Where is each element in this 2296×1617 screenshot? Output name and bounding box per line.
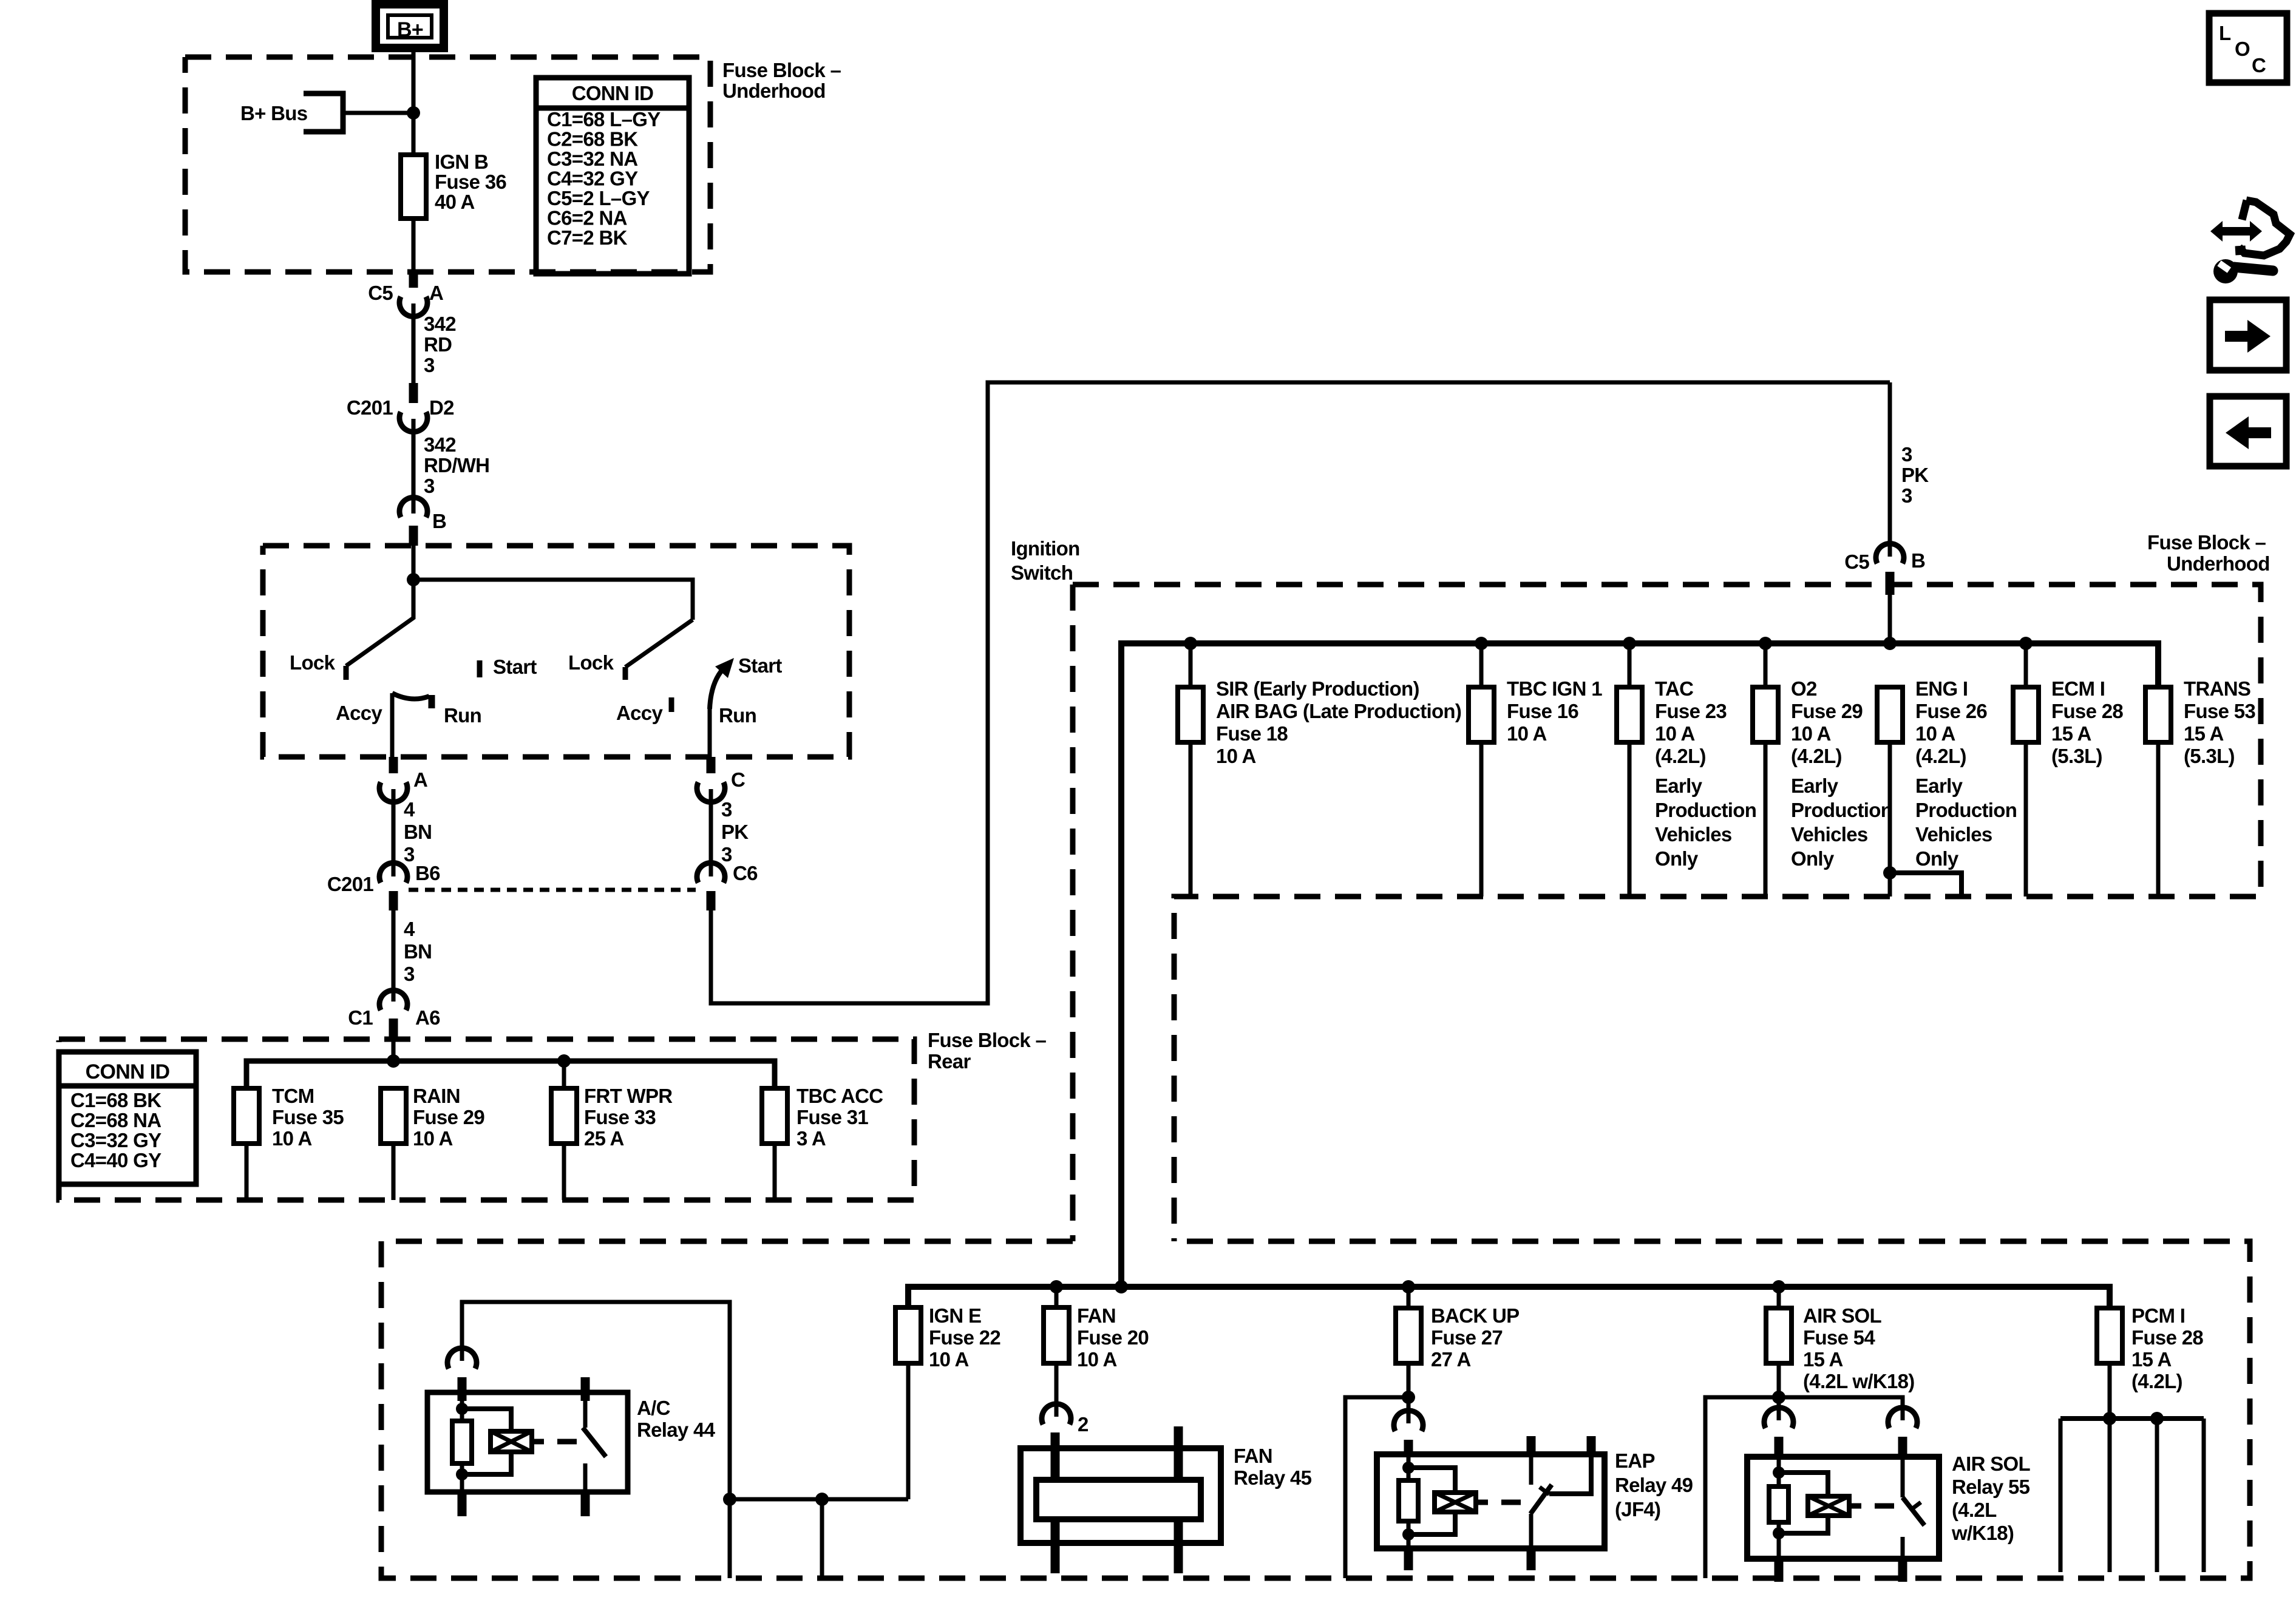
svg-text:AIR BAG (Late Production): AIR BAG (Late Production) [1216, 700, 1461, 722]
svg-text:15 A: 15 A [1803, 1348, 1843, 1371]
junction rear bus RAIN [387, 1054, 400, 1068]
fuse block - underhood (left) dashed border [185, 57, 710, 272]
svg-text:C2=68 BK: C2=68 BK [547, 128, 638, 151]
junction bottom bus riser [1115, 1280, 1128, 1293]
svg-text:3: 3 [1901, 484, 1912, 507]
EAP relay coil loop [1408, 1468, 1455, 1534]
svg-text:CONN ID: CONN ID [86, 1060, 170, 1083]
wire A6 to rear bus [392, 1038, 396, 1061]
svg-text:10 A: 10 A [929, 1348, 969, 1371]
wire AC relay feed [462, 1302, 730, 1499]
connector C5 pin B [1876, 543, 1904, 595]
svg-text:Fuse 27: Fuse 27 [1431, 1326, 1503, 1349]
label Run 1 [444, 704, 481, 727]
svg-text:Relay 49: Relay 49 [1615, 1474, 1693, 1496]
svg-text:O: O [2235, 38, 2250, 60]
AIRSOL relay coil wire [1777, 1457, 1781, 1559]
junction AC coil bottom [456, 1468, 468, 1480]
label B [432, 510, 446, 532]
label IGN E [929, 1304, 1000, 1371]
label BACK UP [1431, 1304, 1519, 1371]
svg-text:3: 3 [424, 475, 435, 497]
svg-text:B: B [432, 510, 446, 532]
label A 2 [413, 768, 427, 791]
label C201 2 [327, 873, 373, 895]
label Start 2 [738, 654, 782, 677]
svg-text:3: 3 [404, 843, 415, 866]
fuse FAN Fuse 20 [1044, 1307, 1069, 1417]
label ENG I early production [1915, 775, 2017, 870]
svg-text:Early: Early [1655, 775, 1703, 797]
ignition switch dashed border [263, 546, 849, 757]
AIRSOL relay switch blade [1903, 1497, 1924, 1525]
junction bottom bus AIRSOL [1772, 1280, 1785, 1293]
svg-text:10 A: 10 A [1216, 745, 1256, 767]
svg-text:2: 2 [1078, 1413, 1089, 1436]
connector C201 pin C6 [697, 863, 725, 910]
junction bus O2 [1759, 637, 1772, 650]
switch 1 wiper to Lock [346, 580, 413, 680]
svg-text:C: C [2252, 54, 2266, 76]
FAN relay pin left top [1051, 1432, 1060, 1480]
label TCM [272, 1085, 344, 1150]
label C5 [368, 282, 393, 304]
A/C relay linkage dash [557, 1439, 577, 1445]
junction AC feed [723, 1493, 736, 1506]
fuse block - rear dashed border [59, 1039, 914, 1200]
svg-text:ECM I: ECM I [2051, 677, 2105, 700]
fuse IGN B Fuse 36 40A [401, 155, 426, 272]
svg-text:FRT WPR: FRT WPR [584, 1085, 673, 1107]
svg-text:Underhood: Underhood [2167, 552, 2270, 575]
contact Start 1 [477, 660, 483, 677]
label ignition switch [1011, 537, 1080, 584]
svg-text:(4.2L): (4.2L) [1791, 745, 1842, 767]
EAP relay pin bottom left [1404, 1548, 1413, 1570]
svg-text:A6: A6 [415, 1006, 440, 1029]
svg-text:RAIN: RAIN [413, 1085, 460, 1107]
svg-text:C3=32 GY: C3=32 GY [70, 1129, 161, 1151]
bottom feed bus [908, 1287, 2110, 1309]
EAP relay switch pin top [1527, 1436, 1536, 1485]
svg-text:Only: Only [1655, 847, 1699, 870]
svg-text:3: 3 [721, 798, 732, 821]
label PCM I [2131, 1304, 2203, 1392]
svg-text:(4.2L): (4.2L) [1655, 745, 1706, 767]
AIRSOL relay pin bottom left [1775, 1559, 1784, 1582]
switch 1 Accy-Run arc [392, 693, 432, 708]
label 2 [1078, 1413, 1089, 1436]
connector FAN relay pin 2 [1042, 1404, 1071, 1425]
label EAP relay 49 [1615, 1449, 1693, 1520]
svg-text:C4=40 GY: C4=40 GY [70, 1149, 161, 1171]
junction EAP coil top [1402, 1462, 1415, 1474]
svg-text:Vehicles: Vehicles [1655, 823, 1732, 846]
label 3 PK 3 right [1901, 443, 1929, 507]
svg-text:Fuse 26: Fuse 26 [1915, 700, 1987, 722]
svg-text:3: 3 [1901, 443, 1912, 466]
wire SIR drop [1189, 643, 1193, 687]
junction bus ECM I [2019, 637, 2033, 650]
svg-text:Fuse 28: Fuse 28 [2051, 700, 2123, 722]
wire ignition crossover [413, 580, 693, 620]
svg-text:Fuse 31: Fuse 31 [796, 1106, 868, 1128]
label C201 [347, 396, 393, 419]
fuse BACK UP Fuse 27 [1396, 1308, 1421, 1423]
svg-text:L: L [2219, 22, 2231, 44]
svg-text:Underhood: Underhood [722, 80, 826, 102]
svg-text:C5=2 L–GY: C5=2 L–GY [547, 187, 650, 209]
wire O2 drop [1764, 643, 1768, 687]
A/C relay 44 box [427, 1392, 628, 1492]
svg-text:(4.2L): (4.2L) [2131, 1370, 2182, 1392]
svg-text:ENG I: ENG I [1915, 677, 1968, 700]
svg-text:40 A: 40 A [435, 191, 475, 213]
switch 2 Start arrow [710, 658, 734, 709]
EAP relay linkage dash [1501, 1500, 1521, 1505]
power feed B+ box [376, 4, 444, 48]
svg-text:Relay 44: Relay 44 [637, 1419, 716, 1441]
svg-text:B+: B+ [397, 18, 423, 41]
svg-text:BN: BN [404, 940, 432, 963]
svg-text:Fuse 29: Fuse 29 [1791, 700, 1863, 722]
label ECM I [2051, 677, 2123, 767]
svg-text:C3=32 NA: C3=32 NA [547, 147, 637, 170]
label TAC [1655, 677, 1727, 767]
svg-text:IGN B: IGN B [435, 151, 488, 173]
svg-text:Accy: Accy [616, 702, 663, 724]
svg-text:Early: Early [1915, 775, 1963, 797]
label Lock 2 [568, 651, 614, 674]
svg-text:Fuse 23: Fuse 23 [1655, 700, 1727, 722]
fuse FRT WPR Fuse 33 [551, 1088, 577, 1200]
AIRSOL relay coil loop [1779, 1473, 1828, 1533]
svg-text:Only: Only [1915, 847, 1959, 870]
EAP relay coil wire [1407, 1454, 1411, 1548]
label ENG I [1915, 677, 1987, 767]
PCM comb bus [2060, 1416, 2204, 1421]
wire AIRSOL right branch [1779, 1397, 1903, 1420]
fuse block underhood (right) dashed border [1073, 585, 2261, 1241]
EAP relay resistor [1399, 1480, 1418, 1521]
A/C relay pin bottom left [458, 1492, 467, 1516]
svg-text:EAP: EAP [1615, 1449, 1655, 1472]
connector A/C relay pin [447, 1348, 477, 1401]
wire AIRSOL left branch [1705, 1397, 1779, 1578]
wire 3 PK 3 left [709, 789, 713, 876]
svg-text:C201: C201 [347, 396, 393, 419]
svg-text:O2: O2 [1791, 677, 1817, 700]
fuse ENG I Fuse 26 [1877, 687, 1903, 897]
connector AIRSOL relay switch pin [1888, 1408, 1917, 1459]
label 3 PK 3 left [721, 798, 749, 866]
label fuse block underhood (left) [722, 59, 841, 102]
svg-text:Early: Early [1791, 775, 1839, 797]
fuse block underhood corridor left edge [1070, 585, 1076, 1241]
svg-text:AIR SOL: AIR SOL [1803, 1304, 1881, 1327]
junction bus SIR [1184, 637, 1197, 650]
junction bus TAC [1623, 637, 1636, 650]
AIRSOL relay coil [1808, 1496, 1849, 1516]
svg-text:Vehicles: Vehicles [1791, 823, 1868, 846]
junction AIRSOL coil bottom [1773, 1527, 1785, 1539]
wire PCM pin 4 [2202, 1419, 2206, 1572]
wire 4 BN 3 lower [392, 910, 396, 1002]
svg-text:C2=68 NA: C2=68 NA [70, 1109, 161, 1131]
label AIR SOL fuse [1803, 1304, 1915, 1392]
wire B to junction [412, 546, 416, 580]
svg-text:(5.3L): (5.3L) [2051, 745, 2102, 767]
wire 342 RD/WH 3 [412, 419, 416, 514]
wire B+ to fuse block [412, 49, 416, 155]
svg-text:Fuse 36: Fuse 36 [435, 171, 506, 193]
junction ENG I jog [1883, 866, 1897, 880]
svg-text:CONN ID: CONN ID [572, 82, 653, 104]
svg-text:Fuse 33: Fuse 33 [584, 1106, 656, 1128]
svg-text:TCM: TCM [272, 1085, 314, 1107]
svg-text:Fuse 35: Fuse 35 [272, 1106, 344, 1128]
svg-text:Production: Production [1791, 799, 1892, 821]
EAP relay switch wire [1549, 1454, 1591, 1494]
svg-text:342: 342 [424, 313, 456, 335]
svg-text:Production: Production [1655, 799, 1756, 821]
C201 dashed connector line [409, 888, 696, 892]
label Start 1 [493, 656, 537, 678]
connector C201 pin D2 [399, 383, 427, 432]
svg-text:Relay 55: Relay 55 [1952, 1476, 2030, 1498]
junction PCM comb 1 [2103, 1412, 2116, 1425]
label Accy 1 [336, 702, 382, 724]
svg-text:(JF4): (JF4) [1615, 1498, 1660, 1520]
svg-text:Fuse 53: Fuse 53 [2184, 700, 2255, 722]
svg-text:Relay 45: Relay 45 [1234, 1466, 1312, 1489]
svg-text:Accy: Accy [336, 702, 382, 724]
wire FRT WPR drop [562, 1061, 566, 1088]
A/C relay resistor [452, 1421, 472, 1463]
label O2 [1791, 677, 1863, 767]
AIR SOL relay 55 box [1747, 1457, 1939, 1559]
wire BACKUP left branch [1345, 1397, 1408, 1578]
svg-text:(4.2L: (4.2L [1952, 1499, 1997, 1521]
svg-text:IGN E: IGN E [929, 1304, 981, 1327]
AIRSOL relay pin bottom right [1898, 1559, 1907, 1582]
junction AC feed 2 [815, 1493, 829, 1506]
AIRSOL relay switch top [1901, 1459, 1905, 1497]
svg-text:Only: Only [1791, 847, 1835, 870]
svg-text:C6: C6 [733, 862, 758, 884]
svg-text:Vehicles: Vehicles [1915, 823, 1992, 846]
svg-text:3 A: 3 A [796, 1127, 826, 1150]
underhood fuse bus [1121, 643, 2158, 1287]
label 4 BN 3 upper [404, 798, 432, 866]
junction AIRSOL coil top [1773, 1466, 1785, 1479]
label 4 BN 3 lower [404, 918, 432, 985]
svg-text:C201: C201 [327, 873, 373, 895]
connector C1 pin A6 [379, 990, 407, 1038]
svg-text:Production: Production [1915, 799, 2017, 821]
connector C5 pin A [399, 272, 427, 317]
svg-text:C4=32 GY: C4=32 GY [547, 168, 638, 190]
svg-text:Fuse 54: Fuse 54 [1803, 1326, 1875, 1349]
svg-text:15 A: 15 A [2131, 1348, 2172, 1371]
svg-text:B: B [1911, 549, 1925, 572]
fuse TBC IGN 1 Fuse 16 [1469, 687, 1494, 897]
A/C relay pin bottom right [581, 1492, 590, 1516]
label Accy 2 [616, 702, 663, 724]
wire TBC IGN drop [1479, 643, 1484, 687]
svg-text:10 A: 10 A [1655, 722, 1695, 745]
label TBC ACC [796, 1085, 883, 1150]
wire PCM pin 1 [2059, 1419, 2063, 1572]
EAP relay pin bottom right [1527, 1548, 1536, 1570]
svg-text:FAN: FAN [1077, 1304, 1116, 1327]
junction B+ bus [407, 106, 420, 120]
wire PCM pin 3 [2155, 1419, 2159, 1572]
junction AC coil top [456, 1403, 468, 1415]
A/C relay feed bus [730, 1497, 908, 1502]
svg-text:(4.2L): (4.2L) [1915, 745, 1966, 767]
wire AC feed drop 1 [728, 1499, 732, 1578]
fuse O2 Fuse 29 [1753, 687, 1778, 897]
fuse SIR AIR BAG Fuse 18 [1178, 687, 1203, 897]
label O2 early production [1791, 775, 1892, 870]
svg-text:Fuse 29: Fuse 29 [413, 1106, 484, 1128]
A/C relay switch blade [583, 1428, 606, 1457]
EAP relay switch blade [1530, 1485, 1552, 1514]
label C6 [733, 862, 758, 884]
label B6 [415, 862, 440, 884]
junction bus TBC IGN [1475, 637, 1488, 650]
label D2 [429, 396, 454, 419]
svg-text:(4.2L w/K18): (4.2L w/K18) [1803, 1370, 1915, 1392]
B+ Bus bracket [304, 93, 343, 132]
EAP relay coil stub [1476, 1500, 1488, 1505]
svg-text:D2: D2 [429, 396, 454, 419]
label TBC IGN 1 [1507, 677, 1602, 745]
svg-text:Lock: Lock [568, 651, 614, 674]
wire B+ Bus to main [343, 111, 413, 115]
A/C relay switch lower [583, 1463, 588, 1492]
switch 2 wiper to Lock [625, 620, 693, 680]
connector AIRSOL relay coil pin [1764, 1408, 1793, 1459]
svg-text:Fuse Block –: Fuse Block – [928, 1029, 1047, 1051]
svg-text:Start: Start [493, 656, 537, 678]
label AIR SOL relay 55 [1951, 1453, 2030, 1544]
svg-text:PK: PK [721, 821, 749, 843]
wire C6 to riser [711, 382, 1890, 1003]
svg-text:10 A: 10 A [1077, 1348, 1117, 1371]
svg-text:Rear: Rear [928, 1050, 971, 1073]
connector pin B (ignition switch) [399, 497, 427, 546]
LOC reference box [2209, 13, 2287, 83]
svg-text:Lock: Lock [290, 651, 336, 674]
A/C relay coil [491, 1431, 532, 1452]
EAP relay switch pin top right [1587, 1436, 1596, 1454]
label B right [1911, 549, 1925, 572]
svg-text:4: 4 [404, 798, 415, 821]
wire PCM pin 2 [2108, 1419, 2112, 1572]
junction ignition feed [407, 573, 420, 586]
label 342 RD/WH 3 [424, 433, 489, 497]
svg-text:TBC ACC: TBC ACC [796, 1085, 883, 1107]
wire ENG I jog [1890, 873, 1961, 897]
diagnostic connector icon [2210, 200, 2290, 283]
svg-text:A: A [413, 768, 427, 791]
svg-text:TRANS: TRANS [2184, 677, 2250, 700]
svg-text:A: A [429, 282, 443, 304]
svg-text:AIR SOL: AIR SOL [1952, 1453, 2030, 1475]
CONN ID table (rear) [59, 1052, 196, 1184]
svg-text:Fuse 22: Fuse 22 [929, 1326, 1000, 1349]
svg-text:TBC IGN 1: TBC IGN 1 [1507, 677, 1602, 700]
AIRSOL relay switch lower [1901, 1537, 1905, 1559]
svg-text:PCM I: PCM I [2131, 1304, 2185, 1327]
svg-text:25 A: 25 A [584, 1127, 624, 1150]
svg-text:B+ Bus: B+ Bus [240, 102, 307, 124]
svg-text:15 A: 15 A [2184, 722, 2224, 745]
label FAN fuse [1077, 1304, 1149, 1371]
junction AIRSOL split [1772, 1391, 1785, 1404]
CONN ID table (underhood) [536, 78, 689, 274]
svg-text:B6: B6 [415, 862, 440, 884]
svg-text:Switch: Switch [1011, 561, 1073, 584]
svg-text:BACK UP: BACK UP [1431, 1304, 1519, 1327]
wire ECM drop [2024, 643, 2028, 687]
svg-text:w/K18): w/K18) [1951, 1522, 2014, 1544]
svg-text:RD/WH: RD/WH [424, 454, 489, 476]
wire C5B to bus [1888, 595, 1892, 643]
label Run 2 [719, 704, 756, 727]
wire AIRSOL drop [1777, 1287, 1781, 1308]
label A [429, 282, 443, 304]
EAP relay coil [1435, 1493, 1476, 1512]
svg-text:Ignition: Ignition [1011, 537, 1080, 560]
svg-text:10 A: 10 A [1791, 722, 1831, 745]
wire 342 RD 3 [412, 303, 416, 384]
junction rear bus FRT WPR [557, 1054, 571, 1068]
fuse TRANS Fuse 53 [2145, 687, 2171, 897]
connector C201 pin B6 [379, 863, 407, 910]
back arrow box [2210, 396, 2286, 466]
svg-text:342: 342 [424, 433, 456, 456]
rear fuse bus [246, 1061, 775, 1090]
svg-text:C1: C1 [348, 1006, 373, 1029]
svg-text:3: 3 [424, 354, 435, 376]
A/C relay coil stub [532, 1439, 544, 1445]
svg-text:10 A: 10 A [1507, 722, 1547, 745]
label 342 RD 3 [424, 313, 456, 376]
label A6 [415, 1006, 440, 1029]
svg-text:SIR (Early Production): SIR (Early Production) [1216, 677, 1419, 700]
wire 3 PK 3 feed [1888, 382, 1892, 557]
junction BACKUP split [1402, 1391, 1415, 1404]
svg-text:Fuse 20: Fuse 20 [1077, 1326, 1149, 1349]
label FAN relay 45 [1234, 1445, 1312, 1489]
svg-text:27 A: 27 A [1431, 1348, 1471, 1371]
FAN relay 45 inner [1036, 1480, 1201, 1519]
FAN relay pin left bottom [1051, 1519, 1060, 1573]
fuse RAIN Fuse 29 [381, 1088, 406, 1200]
forward arrow box [2210, 300, 2286, 370]
label TRANS [2184, 677, 2255, 767]
svg-text:Run: Run [719, 704, 756, 727]
svg-text:Fuse Block –: Fuse Block – [2147, 531, 2266, 554]
svg-text:PK: PK [1901, 464, 1929, 486]
fuse ECM I Fuse 28 [2013, 687, 2039, 897]
svg-text:C5: C5 [368, 282, 393, 304]
label IGN B [435, 151, 506, 213]
wire 4 BN 3 upper [392, 789, 396, 876]
